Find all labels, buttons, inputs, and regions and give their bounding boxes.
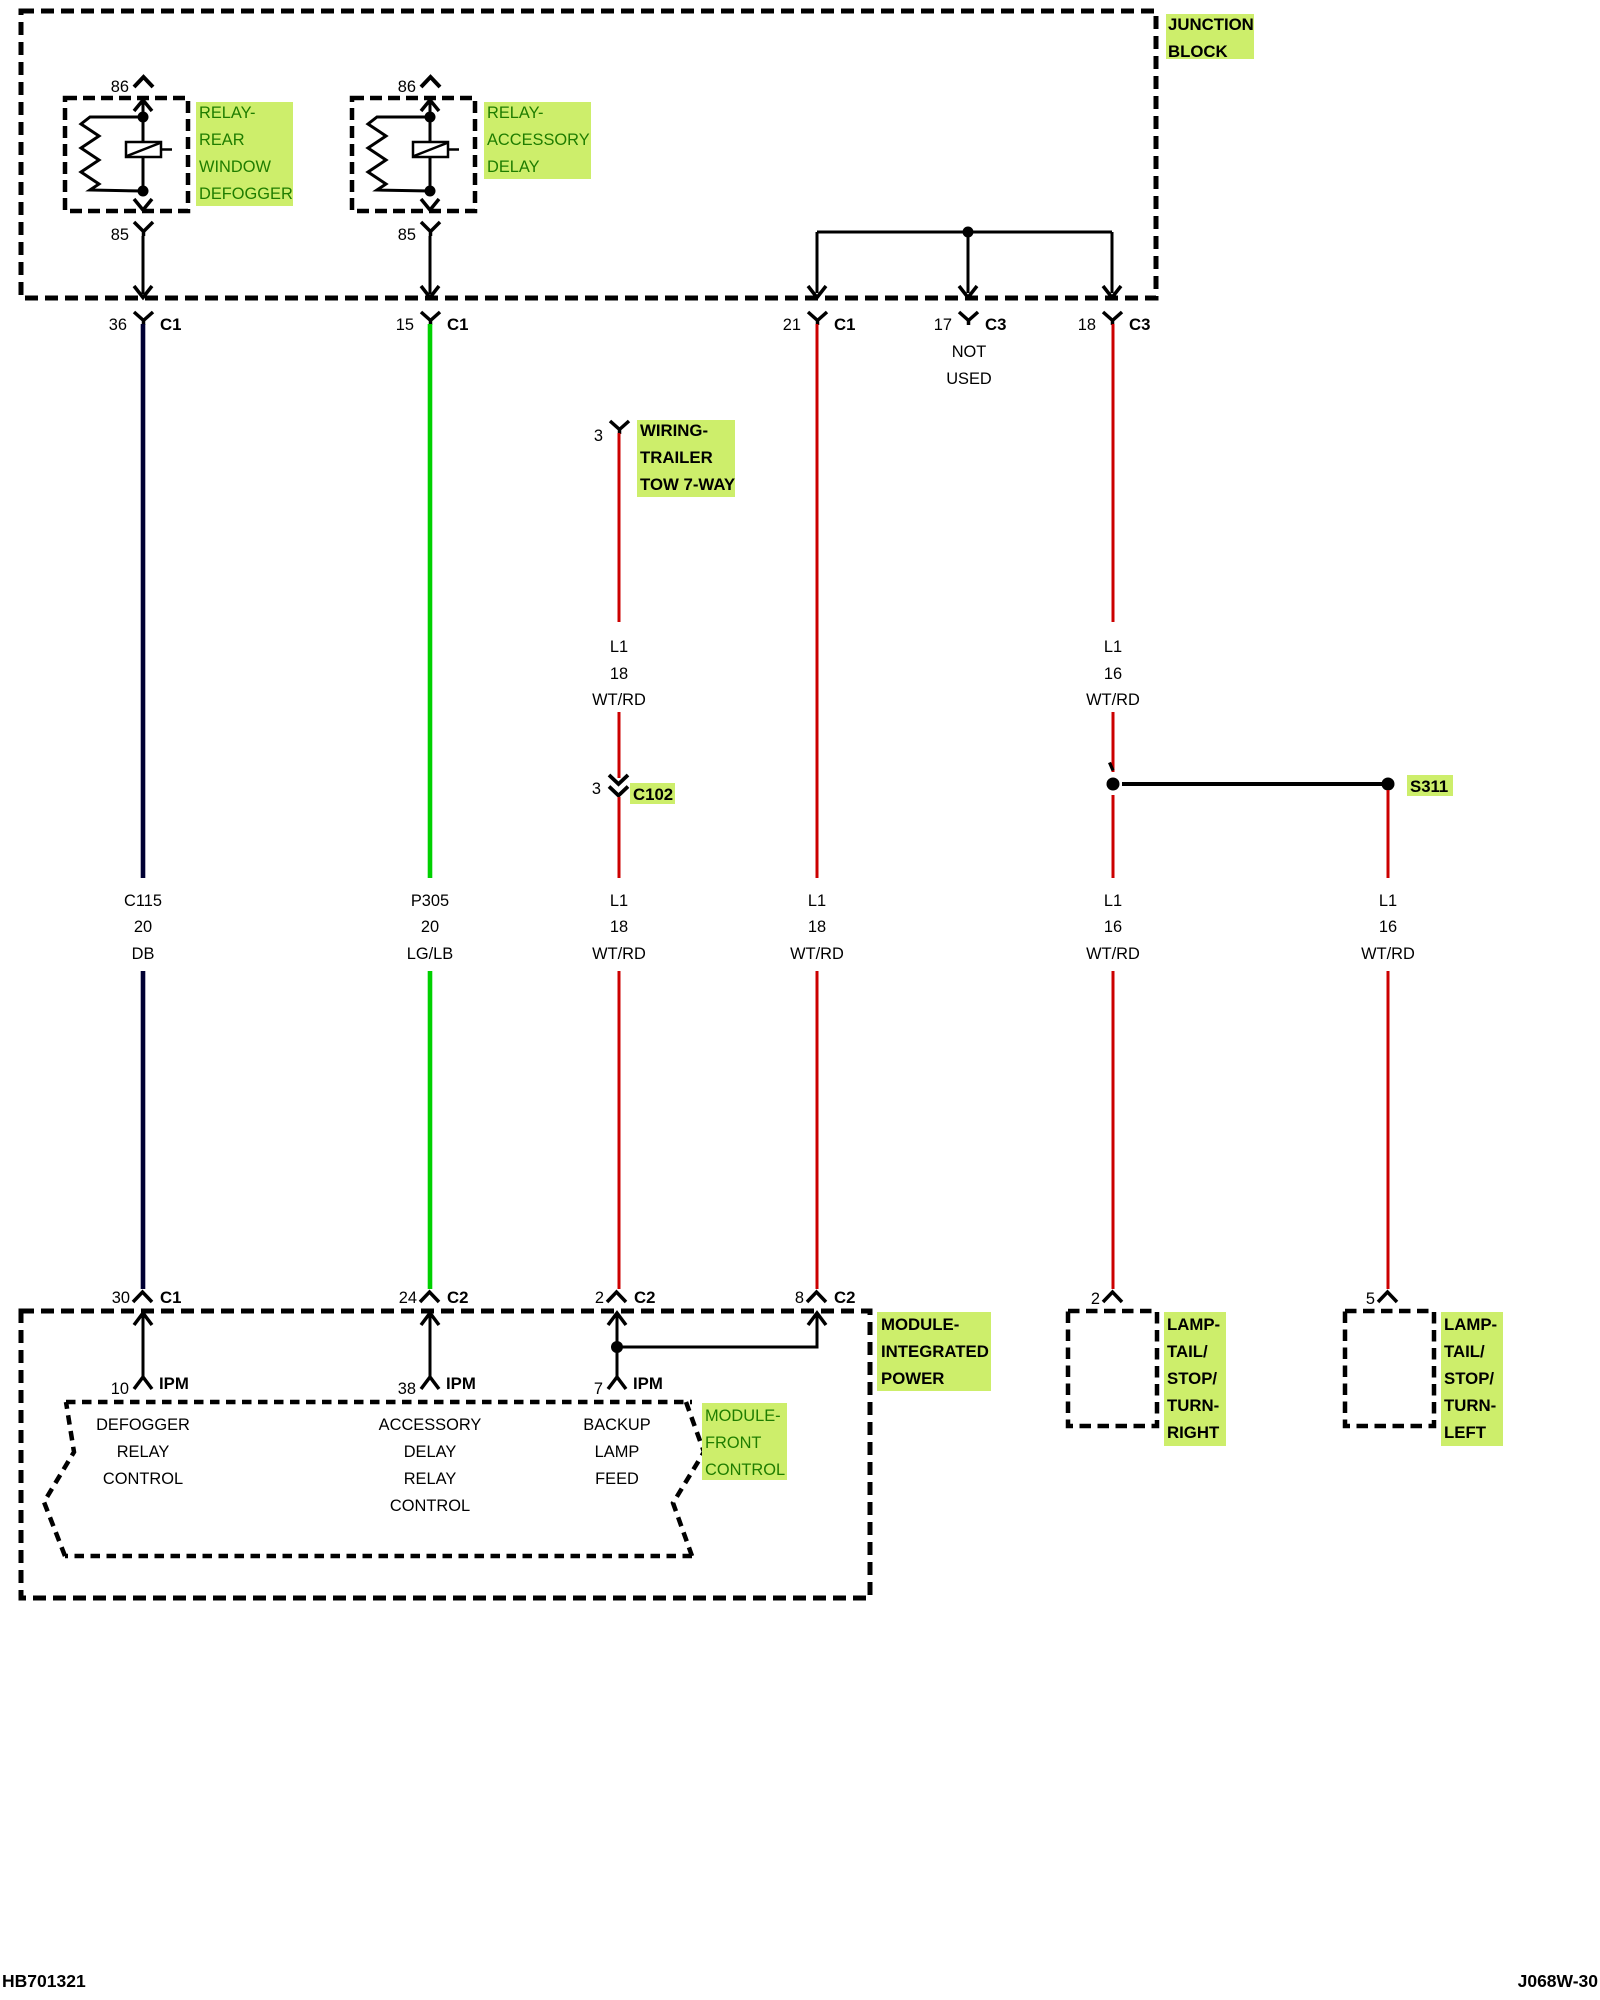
wire L1 16 WT/RD (left tail lamp) <box>1387 790 1390 878</box>
svg-text:16: 16 <box>1379 918 1397 936</box>
svg-text:3: 3 <box>594 427 603 445</box>
svg-text:TURN-: TURN- <box>1444 1396 1496 1415</box>
connector pin 15 C1 <box>421 312 440 325</box>
lamp right label <box>1164 1312 1226 1446</box>
svg-text:POWER: POWER <box>881 1369 944 1388</box>
module front control label <box>702 1403 787 1480</box>
svg-text:LG/LB: LG/LB <box>407 945 454 963</box>
relay K1 (rear window defogger) box <box>65 98 188 211</box>
svg-text:RIGHT: RIGHT <box>1167 1423 1220 1442</box>
svg-text:C1: C1 <box>160 315 181 334</box>
relay K2 pin 86 connector <box>421 77 440 87</box>
svg-text:85: 85 <box>398 226 416 244</box>
svg-text:ACCESSORY: ACCESSORY <box>487 131 590 149</box>
svg-text:C102: C102 <box>633 785 673 804</box>
svg-text:LAMP: LAMP <box>595 1443 640 1461</box>
junction block label <box>1166 14 1254 59</box>
svg-text:WINDOW: WINDOW <box>199 158 271 176</box>
svg-text:JUNCTION: JUNCTION <box>1168 15 1254 34</box>
svg-text:IPM: IPM <box>159 1374 189 1393</box>
svg-text:TAIL/: TAIL/ <box>1444 1342 1485 1361</box>
wire L1 18 WT/RD (trailer branch lower) <box>618 797 621 878</box>
svg-text:C2: C2 <box>447 1288 468 1307</box>
svg-text:L1: L1 <box>1379 892 1397 910</box>
svg-text:CONTROL: CONTROL <box>103 1470 183 1488</box>
relay K2 (accessory delay) box <box>352 98 475 211</box>
wire P305 20 LG/LB (light green) <box>428 324 433 878</box>
connector pin 30 C1 <box>133 1292 152 1302</box>
node relay K1 bottom <box>138 186 149 197</box>
svg-text:REAR: REAR <box>199 131 245 149</box>
svg-text:ACCESSORY: ACCESSORY <box>379 1416 482 1434</box>
connector pin 24 C2 <box>420 1292 439 1302</box>
svg-text:NOT: NOT <box>952 343 987 361</box>
svg-text:21: 21 <box>783 316 801 334</box>
svg-text:DEFOGGER: DEFOGGER <box>199 185 293 203</box>
svg-text:TRAILER: TRAILER <box>640 448 713 467</box>
svg-text:15: 15 <box>396 316 414 334</box>
splice S311 <box>1107 778 1120 791</box>
svg-text:WT/RD: WT/RD <box>1086 945 1140 963</box>
svg-text:C1: C1 <box>447 315 468 334</box>
svg-text:36: 36 <box>109 316 127 334</box>
svg-text:DELAY: DELAY <box>404 1443 457 1461</box>
svg-text:5: 5 <box>1366 1290 1375 1308</box>
svg-text:J068W-30: J068W-30 <box>1518 1971 1599 1991</box>
relay K2 label <box>484 102 591 179</box>
svg-text:2: 2 <box>595 1289 604 1307</box>
svg-text:C2: C2 <box>634 1288 655 1307</box>
svg-text:P305: P305 <box>411 892 449 910</box>
svg-text:8: 8 <box>795 1289 804 1307</box>
connector pin 3 (trailer tow) <box>610 421 629 434</box>
wire C115 20 DB (dark blue) <box>141 324 146 878</box>
svg-text:S311: S311 <box>1410 777 1448 796</box>
relay K1 pin 85 connector <box>134 222 153 236</box>
svg-text:DEFOGGER: DEFOGGER <box>96 1416 190 1434</box>
svg-text:LEFT: LEFT <box>1444 1423 1487 1442</box>
connector pin 21 C1 <box>808 312 827 325</box>
svg-text:BACKUP: BACKUP <box>583 1416 650 1434</box>
trailer tow label <box>637 420 735 497</box>
pin 38 IPM accessory delay relay control <box>421 1313 439 1325</box>
svg-text:2: 2 <box>1091 1290 1100 1308</box>
wire feed bus inside junction block <box>817 231 1112 234</box>
svg-text:C1: C1 <box>160 1288 181 1307</box>
svg-text:USED: USED <box>946 370 992 388</box>
relay K2 coil wire and arrow <box>421 100 439 111</box>
svg-text:20: 20 <box>421 918 439 936</box>
connector C102 <box>609 775 628 796</box>
svg-text:16: 16 <box>1104 665 1122 683</box>
svg-text:CONTROL: CONTROL <box>705 1461 785 1479</box>
wire bus drop to pin 17 <box>967 232 970 293</box>
lamp tail/stop/turn left box <box>1345 1311 1434 1426</box>
wire L1 16 WT/RD (right tail lamp lower) <box>1112 795 1115 878</box>
svg-text:WT/RD: WT/RD <box>1361 945 1415 963</box>
svg-text:FEED: FEED <box>595 1470 639 1488</box>
wire L1 18 WT/RD (trailer branch upper) <box>618 433 621 622</box>
svg-text:LAMP-: LAMP- <box>1167 1315 1220 1334</box>
pin 10 IPM defogger relay control <box>134 1313 152 1325</box>
svg-text:STOP/: STOP/ <box>1444 1369 1494 1388</box>
relay coil K2 <box>413 142 448 157</box>
svg-text:WT/RD: WT/RD <box>592 945 646 963</box>
connector pin 8 C2 <box>807 1292 826 1302</box>
svg-text:LAMP-: LAMP- <box>1444 1315 1497 1334</box>
svg-text:DB: DB <box>132 945 155 963</box>
svg-text:WT/RD: WT/RD <box>592 691 646 709</box>
svg-text:L1: L1 <box>808 892 826 910</box>
relay coil K1 <box>126 142 161 157</box>
svg-text:STOP/: STOP/ <box>1167 1369 1217 1388</box>
svg-text:CONTROL: CONTROL <box>390 1497 470 1515</box>
svg-text:3: 3 <box>592 780 601 798</box>
svg-text:86: 86 <box>398 78 416 96</box>
svg-text:L1: L1 <box>610 892 628 910</box>
connector pin 2 (lamp right) <box>1103 1292 1122 1302</box>
svg-text:86: 86 <box>111 78 129 96</box>
module front control box <box>44 1402 704 1556</box>
wire bus drop to pin 18 <box>1111 232 1114 293</box>
relay K1 coil wire and arrow <box>134 100 152 111</box>
wire relay K1 to junction block edge <box>142 236 145 294</box>
svg-text:MODULE-: MODULE- <box>881 1315 959 1334</box>
svg-text:18: 18 <box>610 665 628 683</box>
svg-text:IPM: IPM <box>446 1374 476 1393</box>
svg-text:IPM: IPM <box>633 1374 663 1393</box>
node bus splice <box>963 227 974 238</box>
node relay K2 bottom <box>425 186 436 197</box>
module integrated power label <box>877 1312 991 1391</box>
lamp left label <box>1441 1312 1503 1446</box>
svg-text:18: 18 <box>808 918 826 936</box>
svg-text:24: 24 <box>399 1289 417 1307</box>
svg-text:TURN-: TURN- <box>1167 1396 1219 1415</box>
svg-text:WT/RD: WT/RD <box>1086 691 1140 709</box>
svg-text:C3: C3 <box>985 315 1006 334</box>
svg-text:WT/RD: WT/RD <box>790 945 844 963</box>
svg-text:L1: L1 <box>1104 638 1122 656</box>
svg-text:17: 17 <box>934 316 952 334</box>
relay K2 pin 85 connector <box>421 222 440 236</box>
svg-text:18: 18 <box>1078 316 1096 334</box>
relay K2 output arrow <box>421 199 439 210</box>
svg-text:MODULE-: MODULE- <box>705 1407 781 1425</box>
connector pin 17 C3 (not used) <box>959 312 978 325</box>
wire bus drop to pin 21 <box>816 232 819 293</box>
node relay K1 top <box>138 112 149 123</box>
svg-text:RELAY-: RELAY- <box>487 104 544 122</box>
wire relay K2 to junction block edge <box>429 236 432 294</box>
svg-text:RELAY-: RELAY- <box>199 104 256 122</box>
svg-text:C115: C115 <box>124 892 162 910</box>
wire L1 18 WT/RD (backup feed) <box>816 324 819 878</box>
svg-text:FRONT: FRONT <box>705 1434 761 1452</box>
svg-text:BLOCK: BLOCK <box>1168 42 1228 61</box>
svg-text:38: 38 <box>398 1380 416 1398</box>
svg-text:30: 30 <box>112 1289 130 1307</box>
svg-text:C2: C2 <box>834 1288 855 1307</box>
wire L1 16 WT/RD (right tail lamp upper) <box>1112 324 1115 622</box>
svg-text:18: 18 <box>610 918 628 936</box>
pin 7 IPM backup lamp feed <box>608 1313 626 1325</box>
connector pin 36 C1 <box>134 312 153 325</box>
svg-text:C1: C1 <box>834 315 855 334</box>
wire backup feed jumper <box>617 1313 817 1347</box>
svg-text:85: 85 <box>111 226 129 244</box>
relay K1 pin 86 connector <box>134 77 153 87</box>
svg-text:10: 10 <box>111 1380 129 1398</box>
module integrated power box <box>21 1311 870 1598</box>
resistor (relay K2 suppression) <box>368 117 430 191</box>
svg-text:7: 7 <box>594 1380 603 1398</box>
svg-text:INTEGRATED: INTEGRATED <box>881 1342 989 1361</box>
svg-text:L1: L1 <box>1104 892 1122 910</box>
lamp tail/stop/turn right box <box>1068 1311 1157 1426</box>
connector pin 2 C2 <box>607 1292 626 1302</box>
node relay K2 top <box>425 112 436 123</box>
svg-text:RELAY: RELAY <box>404 1470 457 1488</box>
relay K1 label <box>196 102 293 206</box>
svg-text:DELAY: DELAY <box>487 158 540 176</box>
svg-text:TAIL/: TAIL/ <box>1167 1342 1208 1361</box>
svg-text:RELAY: RELAY <box>117 1443 170 1461</box>
svg-text:16: 16 <box>1104 918 1122 936</box>
svg-text:L1: L1 <box>610 638 628 656</box>
svg-text:20: 20 <box>134 918 152 936</box>
relay K1 output arrow <box>134 199 152 210</box>
connector pin 5 (lamp left) <box>1378 1292 1397 1302</box>
resistor (relay K1 suppression) <box>81 117 143 191</box>
node backup feed junction <box>611 1341 623 1353</box>
svg-text:HB701321: HB701321 <box>2 1971 86 1991</box>
svg-text:TOW 7-WAY: TOW 7-WAY <box>640 475 735 494</box>
connector pin 18 C3 <box>1103 312 1122 325</box>
svg-text:C3: C3 <box>1129 315 1150 334</box>
junction block <box>21 11 1156 298</box>
svg-text:WIRING-: WIRING- <box>640 421 708 440</box>
